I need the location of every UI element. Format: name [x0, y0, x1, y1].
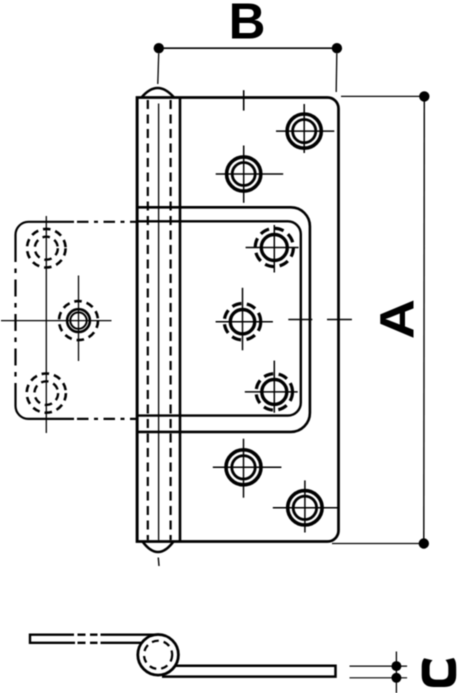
extension line C bottom — [350, 677, 408, 679]
plate mid-height tick inner — [288, 319, 312, 321]
dimension line A — [423, 96, 426, 543]
middle hole horizontal centre line — [1, 320, 112, 322]
dimension A top dot — [419, 91, 429, 101]
side view: large leaf — [162, 666, 336, 677]
hole H7 bottom-right — [273, 480, 338, 532]
small leaf column centre line — [45, 216, 47, 433]
dimension B left dot — [154, 43, 164, 53]
hole H1 top-right — [276, 104, 334, 153]
side view: small leaf break dashes top — [78, 634, 98, 636]
side view: knuckle outer — [138, 635, 179, 676]
small leaf phantom top edge dashed — [77, 221, 137, 223]
dimension C top dot — [391, 661, 401, 671]
small leaf hole middle — [59, 301, 98, 340]
recess outline inner (small leaf edge) — [137, 221, 301, 415]
barrel pin hidden left (dashed) — [147, 100, 149, 540]
plate top centre tick — [243, 90, 245, 110]
hole H6 — [213, 439, 282, 498]
barrel left edge — [136, 98, 139, 542]
small leaf phantom left edge dashed — [14, 245, 16, 398]
hole H5 (with hidden countersink) — [245, 361, 298, 413]
extension line left (hinge axis) — [157, 53, 160, 84]
hole H4 (with hidden countersink) — [216, 288, 273, 351]
side view: small leaf right part to knuckle — [101, 635, 158, 643]
dimension label C — [422, 658, 457, 687]
side view: pin hidden circle — [144, 641, 172, 669]
dimension line B — [159, 47, 337, 49]
extension line top for A — [341, 95, 424, 97]
svg-text:A: A — [370, 299, 424, 339]
hole H3 (with hidden countersink) — [246, 225, 299, 273]
barrel bottom centre tick — [157, 558, 160, 567]
barrel right edge — [179, 98, 182, 542]
extension line bottom for A — [332, 543, 424, 545]
dimension C bottom dot — [391, 673, 401, 683]
dimension B right dot — [332, 43, 342, 53]
recess outline outer — [137, 207, 310, 432]
hole H2 — [216, 146, 284, 203]
barrel bottom dome — [143, 542, 174, 553]
svg-text:B: B — [229, 0, 266, 50]
dimension A bottom dot — [419, 538, 429, 548]
extension line right — [335, 53, 338, 92]
extension line C top — [350, 665, 408, 667]
barrel centre line — [158, 104, 160, 541]
small leaf open position (phantom outline, solid corner parts) — [16, 222, 75, 419]
side view: small leaf break dashes bottom — [78, 642, 98, 644]
barrel top dome — [142, 88, 175, 98]
dimension line C vertical — [395, 652, 397, 693]
small leaf phantom bottom edge dashed — [77, 418, 137, 420]
small leaf hole bottom (hidden) — [27, 374, 66, 413]
barrel pin hidden right (dashed) — [170, 100, 172, 540]
small leaf hole top (hidden) — [27, 229, 66, 268]
side view: small leaf left part — [30, 635, 75, 643]
middle hole vertical centre line — [78, 276, 80, 362]
plate mid-height tick at right edge — [327, 319, 352, 321]
hinge plate outline — [137, 98, 339, 542]
